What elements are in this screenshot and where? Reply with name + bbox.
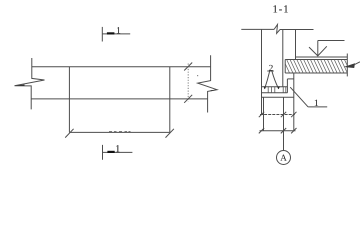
grid leader line to bubble A bbox=[283, 97, 285, 150]
slab thickness dimension line (dashed) bbox=[187, 64, 189, 102]
label 1 leader horizontal bbox=[308, 106, 327, 108]
slab bottom line bbox=[285, 72, 347, 74]
slab left end cap bbox=[284, 60, 286, 74]
column dashed dimension line bbox=[260, 114, 295, 116]
drop beam rectangle bottom edge bbox=[69, 131, 169, 133]
section mark 1 (top): label "1" bbox=[117, 27, 120, 33]
floor topping top line bbox=[296, 56, 348, 58]
dimension tick at top of slab dim bbox=[184, 63, 192, 71]
level/down arrow leader vertical bbox=[317, 41, 319, 56]
section mark 1 (bottom): label "1" bbox=[116, 145, 120, 152]
dim tick right at dashed line bbox=[291, 112, 296, 117]
label 2 leader left arrowhead bbox=[264, 86, 267, 89]
drop beam rectangle right edge bbox=[169, 67, 171, 133]
label 2 underline bbox=[267, 70, 274, 72]
wall top edge line right segment bbox=[280, 29, 314, 31]
column bottom line bbox=[260, 130, 296, 132]
section mark 1 (top): leader line bbox=[102, 33, 130, 35]
bearing pad hatch dashes bbox=[268, 87, 286, 93]
dimension tick bottom-left corner bbox=[65, 129, 73, 138]
label 1 leader diagonal bbox=[290, 87, 308, 107]
slab right cut line bbox=[346, 54, 348, 77]
section mark 1 (bottom): thick cut bar bbox=[107, 151, 114, 153]
dim tick left at bottom line bbox=[259, 128, 264, 133]
dim tick middle at bottom line bbox=[281, 128, 286, 133]
grid bubble label "A" bbox=[280, 155, 286, 161]
corbel step horizontal bbox=[287, 78, 293, 80]
corbel step vertical lower bbox=[286, 79, 288, 93]
beam middle line bbox=[31, 98, 207, 100]
dimension tick bottom-right corner bbox=[166, 129, 174, 138]
section mark 1 (bottom): leader line bbox=[103, 151, 133, 153]
dim tick right at bottom line bbox=[291, 128, 296, 133]
beam top line bbox=[32, 66, 211, 68]
label 2 leader right arrowhead bbox=[277, 86, 280, 89]
dim tick middle at dashed line bbox=[281, 112, 286, 117]
tiny dimension text above bottom edge bbox=[109, 130, 131, 132]
level/down arrow head bbox=[309, 46, 327, 56]
slab top line bbox=[285, 59, 347, 61]
wall top edge break (lightning) bbox=[274, 25, 280, 34]
column box left edge bbox=[263, 97, 265, 131]
section mark 1 (top): thick cut bar bbox=[107, 32, 115, 34]
beam left break sliver fill bbox=[15, 85, 25, 86]
level/down arrow leader horizontal bbox=[318, 40, 345, 42]
upper wall inner face line bbox=[295, 30, 297, 60]
bearing pad bottom line bbox=[262, 92, 288, 94]
beam right break line (vertical with lightning) bbox=[198, 55, 217, 112]
slab continuation arrow tail bbox=[354, 62, 360, 65]
slab continuation arrow head bbox=[344, 63, 356, 68]
wall outer face line bbox=[261, 30, 263, 115]
bearing pad top line bbox=[262, 86, 288, 88]
slab hatching bbox=[283, 59, 355, 74]
section mark 1 (bottom): tick line bbox=[102, 145, 104, 160]
label "1" bbox=[315, 100, 318, 106]
column box top line bbox=[262, 96, 294, 98]
section mark 1 (top): tick line bbox=[101, 27, 103, 42]
grid bubble circle A bbox=[277, 151, 291, 165]
label 2 leader left line bbox=[265, 71, 270, 89]
wall top edge line left segment bbox=[241, 28, 274, 30]
beam right break sliver fill bbox=[211, 90, 217, 92]
beam left break line (vertical with lightning) bbox=[15, 58, 45, 109]
drop beam rectangle left edge bbox=[68, 67, 70, 133]
dim tick left at dashed line bbox=[259, 112, 264, 117]
label "2" bbox=[269, 65, 273, 71]
corbel / column outer face bbox=[293, 73, 295, 131]
dimension tick at bottom of slab dim bbox=[184, 95, 192, 103]
stray point mark bbox=[197, 75, 198, 76]
label 2 leader right line bbox=[272, 71, 279, 89]
section title "1-1" bbox=[273, 5, 288, 12]
wall inner face line bbox=[282, 30, 284, 87]
